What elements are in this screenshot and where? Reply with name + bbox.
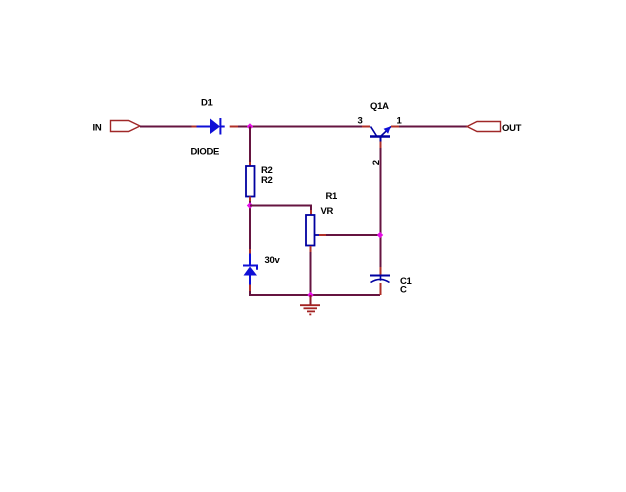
svg-text:R2: R2 — [261, 175, 273, 186]
svg-text:C: C — [400, 285, 407, 296]
svg-text:VR: VR — [321, 206, 334, 217]
svg-text:Q1A: Q1A — [370, 101, 389, 112]
junction node ground — [307, 292, 313, 298]
junction node base/tap — [377, 232, 383, 238]
wire zener to ground rail — [250, 291, 380, 295]
port OUT — [467, 122, 501, 132]
pin R2 bottom stub — [249, 197, 251, 202]
wire node to R1 top — [250, 206, 311, 211]
pin Q1 base stub — [380, 142, 382, 149]
junction node R2/R1 — [247, 202, 253, 208]
port IN — [111, 121, 141, 132]
zener diode 30v — [243, 254, 257, 285]
wire IN to D1 — [140, 126, 192, 128]
pin R1 top stub — [310, 210, 312, 215]
svg-text:30v: 30v — [265, 255, 281, 266]
pin zener top stub — [249, 249, 251, 254]
wire R2 to zener — [249, 201, 251, 249]
transistor Q1A — [370, 126, 391, 141]
svg-text:D1: D1 — [201, 98, 214, 109]
svg-text:OUT: OUT — [502, 123, 522, 134]
resistor R1 (VR) — [306, 215, 319, 246]
svg-text:R1: R1 — [326, 191, 339, 202]
pin D1 cathode stub — [230, 126, 238, 128]
pin R1 tap stub — [319, 234, 326, 236]
junction node at D1/R2 — [247, 123, 253, 129]
pin C1 top stub — [380, 267, 382, 275]
svg-text:IN: IN — [93, 122, 102, 133]
wire Q1 to OUT — [399, 126, 467, 128]
ground — [300, 295, 320, 314]
wire D1 to Q1 collector — [238, 126, 362, 128]
wire Q1 base to C1 — [380, 148, 382, 267]
wire R1 to ground rail — [310, 252, 312, 295]
svg-text:3: 3 — [358, 116, 363, 127]
pin D1 anode stub — [192, 126, 197, 128]
pin Q1 emitter stub — [391, 126, 399, 128]
capacitor C1 — [370, 276, 390, 283]
resistor R2 — [246, 166, 255, 197]
pin R1 bottom stub — [310, 246, 312, 252]
pin zener bottom stub — [249, 285, 251, 292]
wire R1 tap to emitter column — [326, 234, 380, 236]
wire node A to R2 — [249, 127, 251, 163]
svg-text:DIODE: DIODE — [191, 147, 220, 158]
diode D1 — [197, 118, 225, 135]
pin Q1 collector stub — [362, 126, 370, 128]
pin R2 top stub — [249, 162, 251, 166]
pin C1 bottom stub — [380, 283, 382, 295]
